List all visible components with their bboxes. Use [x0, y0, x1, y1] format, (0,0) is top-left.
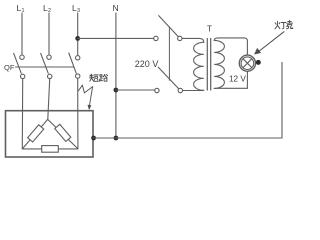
node L3 label [72, 3, 80, 14]
motor delta winding left side [22, 119, 47, 148]
wire L3 to switch upper contact [78, 37, 154, 39]
svg-text:12 V: 12 V [229, 75, 246, 84]
lamp-shell pointer arrow [255, 32, 285, 55]
路 [100, 75, 103, 81]
transformer T label [207, 25, 212, 34]
node junction dot N to bottom wire [114, 136, 119, 141]
node N label [113, 3, 119, 13]
transformer primary winding [194, 42, 204, 90]
lamp inner circle [241, 57, 254, 70]
node L2 label [43, 3, 51, 14]
壳 [286, 21, 292, 29]
winding rectangle left [28, 125, 44, 142]
svg-text:T: T [207, 25, 212, 34]
wire switch to primary top [182, 38, 204, 42]
wire N vertical line [115, 13, 117, 138]
wire secondary top to lamp [214, 38, 247, 55]
灯 [275, 21, 280, 29]
motor enclosure box [6, 111, 94, 157]
wire primary bottom to switch [183, 89, 204, 91]
node junction dot lamp shell [256, 60, 261, 65]
lamp X filament [243, 59, 252, 68]
node L1 label [17, 3, 25, 14]
wire L3 QF to motor [77, 78, 79, 148]
node junction dot on N [114, 88, 119, 93]
motor delta winding bottom side [22, 148, 78, 150]
motor delta winding right side [48, 119, 78, 148]
breaker QF pole 3 [69, 53, 80, 78]
label 12 V [229, 75, 246, 84]
svg-text:QF: QF [4, 63, 15, 72]
winding rectangle right [55, 124, 71, 141]
lamp outer shell circle [239, 55, 255, 71]
breaker QF pole 2 [41, 53, 52, 78]
短 [90, 74, 94, 81]
breaker QF linkage line [16, 66, 74, 68]
wire L2 QF to motor [48, 79, 50, 119]
wire L3 drop to QF [77, 13, 79, 56]
wire L1 drop to QF [21, 13, 23, 55]
node junction dot on motor case [91, 136, 96, 141]
switch S upper contact [154, 16, 182, 41]
label short-circuit (Chinese 短路) [90, 74, 108, 81]
wire L1 QF to motor [21, 79, 23, 149]
breaker QF label [4, 63, 15, 72]
winding rectangle bottom [42, 146, 59, 153]
transformer secondary winding [214, 40, 224, 88]
switch S linkage [168, 27, 170, 80]
wire N to switch lower contact [116, 89, 155, 91]
breaker QF pole 1 [14, 53, 25, 78]
node junction dot on L3 [75, 36, 80, 41]
wire bottom run to lamp shell [94, 62, 282, 138]
switch S lower contact [155, 67, 183, 93]
label 220 V [135, 59, 159, 69]
svg-text:N: N [113, 3, 119, 13]
wire secondary bottom to lamp [214, 72, 247, 89]
svg-text:220 V: 220 V [135, 59, 159, 69]
transformer core [207, 39, 210, 91]
label lamp-shell (Chinese 灯壳) [275, 21, 293, 29]
wire L2 drop to QF [48, 13, 50, 55]
fault zigzag arrow [79, 85, 93, 109]
